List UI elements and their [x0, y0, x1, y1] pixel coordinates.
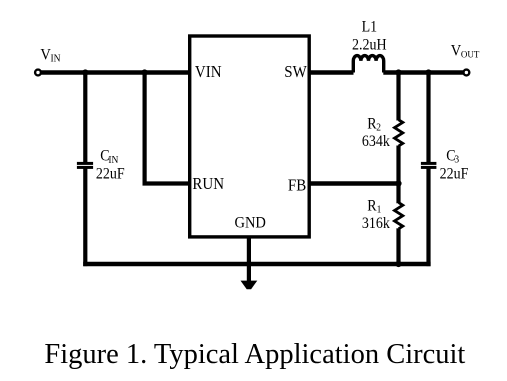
svg-text:VIN: VIN	[195, 63, 222, 81]
svg-text:RUN: RUN	[192, 176, 224, 194]
node VIN terminal	[35, 70, 41, 76]
svg-text:FB: FB	[288, 177, 306, 195]
svg-text:IN: IN	[108, 154, 118, 165]
svg-text:L1: L1	[362, 19, 378, 36]
svg-text:GND: GND	[235, 214, 266, 232]
wire FB	[309, 181, 399, 185]
wire R2 top	[396, 73, 400, 121]
wire C3 top	[426, 73, 430, 163]
svg-text:1: 1	[377, 204, 382, 215]
svg-text:3: 3	[454, 154, 459, 165]
svg-text:Figure 1. Typical Application: Figure 1. Typical Application Circuit	[44, 339, 465, 370]
capacitor C3	[421, 162, 437, 169]
inductor L1	[353, 56, 383, 73]
wire R2 bottom	[396, 146, 400, 184]
wire C3 bottom	[426, 169, 430, 267]
wire ground rail	[83, 262, 430, 266]
node VOUT terminal	[464, 70, 470, 76]
capacitor CIN	[77, 162, 93, 169]
node junction R1 bottom	[395, 261, 401, 267]
wire SW output	[309, 70, 354, 74]
svg-text:V: V	[40, 46, 50, 64]
wire R1 bottom	[396, 228, 400, 264]
svg-text:22uF: 22uF	[96, 166, 125, 183]
wire CIN top	[83, 73, 87, 163]
node junction C3	[425, 69, 431, 75]
svg-text:22uF: 22uF	[440, 166, 469, 183]
node junction CIN	[82, 69, 88, 75]
wire SW to VOUT	[383, 70, 463, 74]
node junction R2	[395, 69, 401, 75]
svg-text:OUT: OUT	[461, 50, 480, 60]
svg-text:2.2uH: 2.2uH	[352, 37, 387, 54]
wire VIN input rail	[41, 70, 190, 74]
wire RUN drop	[145, 73, 190, 184]
wire CIN bottom	[83, 169, 87, 267]
resistor R2	[395, 120, 403, 146]
svg-text:R: R	[367, 198, 376, 215]
op-amp U1 regulator box	[190, 36, 310, 237]
wire R1 top	[396, 184, 400, 204]
svg-text:634k: 634k	[362, 133, 391, 150]
svg-text:IN: IN	[51, 53, 61, 64]
svg-text:V: V	[451, 42, 461, 60]
svg-text:316k: 316k	[362, 215, 391, 232]
node junction RUN	[142, 69, 148, 75]
node junction FB	[395, 180, 401, 186]
ground	[241, 281, 258, 290]
svg-text:2: 2	[376, 122, 381, 133]
resistor R1	[395, 203, 403, 229]
svg-text:SW: SW	[284, 63, 307, 81]
wire GND stem	[247, 237, 251, 281]
